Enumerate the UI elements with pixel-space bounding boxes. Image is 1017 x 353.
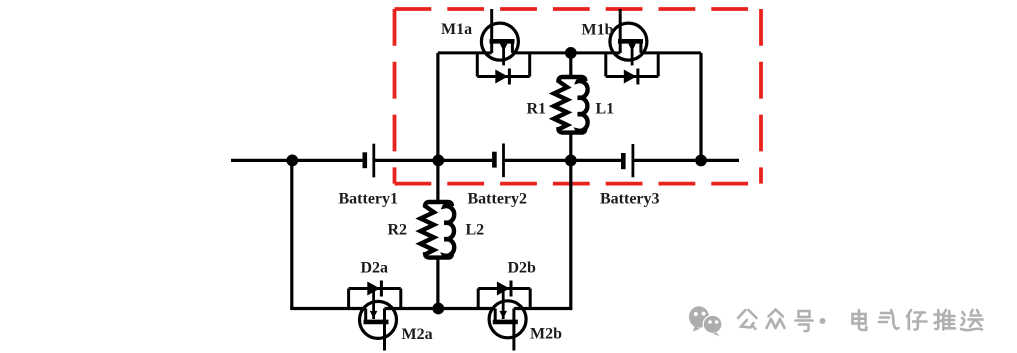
wire: top rail left of M1a <box>438 51 492 54</box>
watermark text 仔 <box>907 310 927 330</box>
node: junction dot bus right <box>695 155 707 167</box>
transistor M2a (MOSFET) <box>360 289 397 351</box>
wire: bus segment Battery1 to Battery2 <box>374 159 492 162</box>
wire: bottom bus left segment <box>290 307 366 310</box>
node: junction dot bottom bus <box>432 303 444 315</box>
wire: top rail right of M1b <box>641 51 701 54</box>
transistor M1b (MOSFET) <box>610 9 647 65</box>
red dashed boundary box <box>395 9 762 184</box>
transistor M2b (MOSFET) <box>489 289 526 351</box>
body diode D2b <box>478 281 530 309</box>
svg-text:D2b: D2b <box>508 260 537 277</box>
watermark separator dot <box>820 318 826 324</box>
R1 L1 parallel RL branch <box>554 53 588 160</box>
body diode of M1b <box>606 53 658 85</box>
wire: top rail node to M1b <box>571 51 620 54</box>
node: junction dot bus at R1 branch <box>565 155 577 167</box>
wire: left loop vertical <box>290 160 293 308</box>
svg-text:Battery3: Battery3 <box>600 191 660 208</box>
svg-text:D2a: D2a <box>361 260 389 277</box>
watermark wechat icon <box>689 306 722 336</box>
watermark text 气 <box>879 310 899 329</box>
svg-text:M1b: M1b <box>582 22 614 39</box>
svg-text:Battery2: Battery2 <box>468 191 528 208</box>
node: junction dot top rail <box>565 47 577 59</box>
wire: left bus segment <box>231 159 362 162</box>
wire: top rail M1a to node <box>512 51 570 54</box>
battery Battery2 <box>494 144 503 178</box>
watermark text 公 <box>738 310 757 329</box>
body diode D2a <box>349 281 401 309</box>
transistor M1a (MOSFET) <box>481 9 518 65</box>
svg-text:M1a: M1a <box>441 21 472 38</box>
watermark text 号 <box>796 311 813 331</box>
svg-text:M2a: M2a <box>402 326 433 343</box>
watermark text 电 <box>853 310 867 330</box>
wire: bus segment Battery2 to Battery3 <box>504 159 622 162</box>
svg-text:R1: R1 <box>527 101 547 118</box>
wire: M1b right branch vertical <box>699 53 702 160</box>
svg-text:M2b: M2b <box>530 326 562 343</box>
svg-text:L2: L2 <box>466 222 485 239</box>
wire: bottom bus middle segment <box>385 307 496 310</box>
watermark text 众 <box>767 310 785 329</box>
wire: M1a left branch vertical <box>436 53 439 160</box>
wire: right loop vertical <box>569 160 572 308</box>
svg-text:Battery1: Battery1 <box>339 191 399 208</box>
watermark text 推 <box>935 310 956 330</box>
body diode of M1a <box>477 53 529 85</box>
wire: bus right stub <box>633 159 739 162</box>
node: junction dot bus at M1a branch <box>432 155 444 167</box>
battery Battery3 <box>623 144 633 177</box>
battery Battery1 <box>365 144 374 178</box>
svg-text:L1: L1 <box>596 101 615 118</box>
wire: bottom bus right segment <box>514 307 573 310</box>
R2 L2 parallel RL branch <box>421 160 455 308</box>
svg-text:R2: R2 <box>388 222 408 239</box>
node: junction dot bus left <box>286 155 298 167</box>
watermark text 送 <box>961 310 983 330</box>
